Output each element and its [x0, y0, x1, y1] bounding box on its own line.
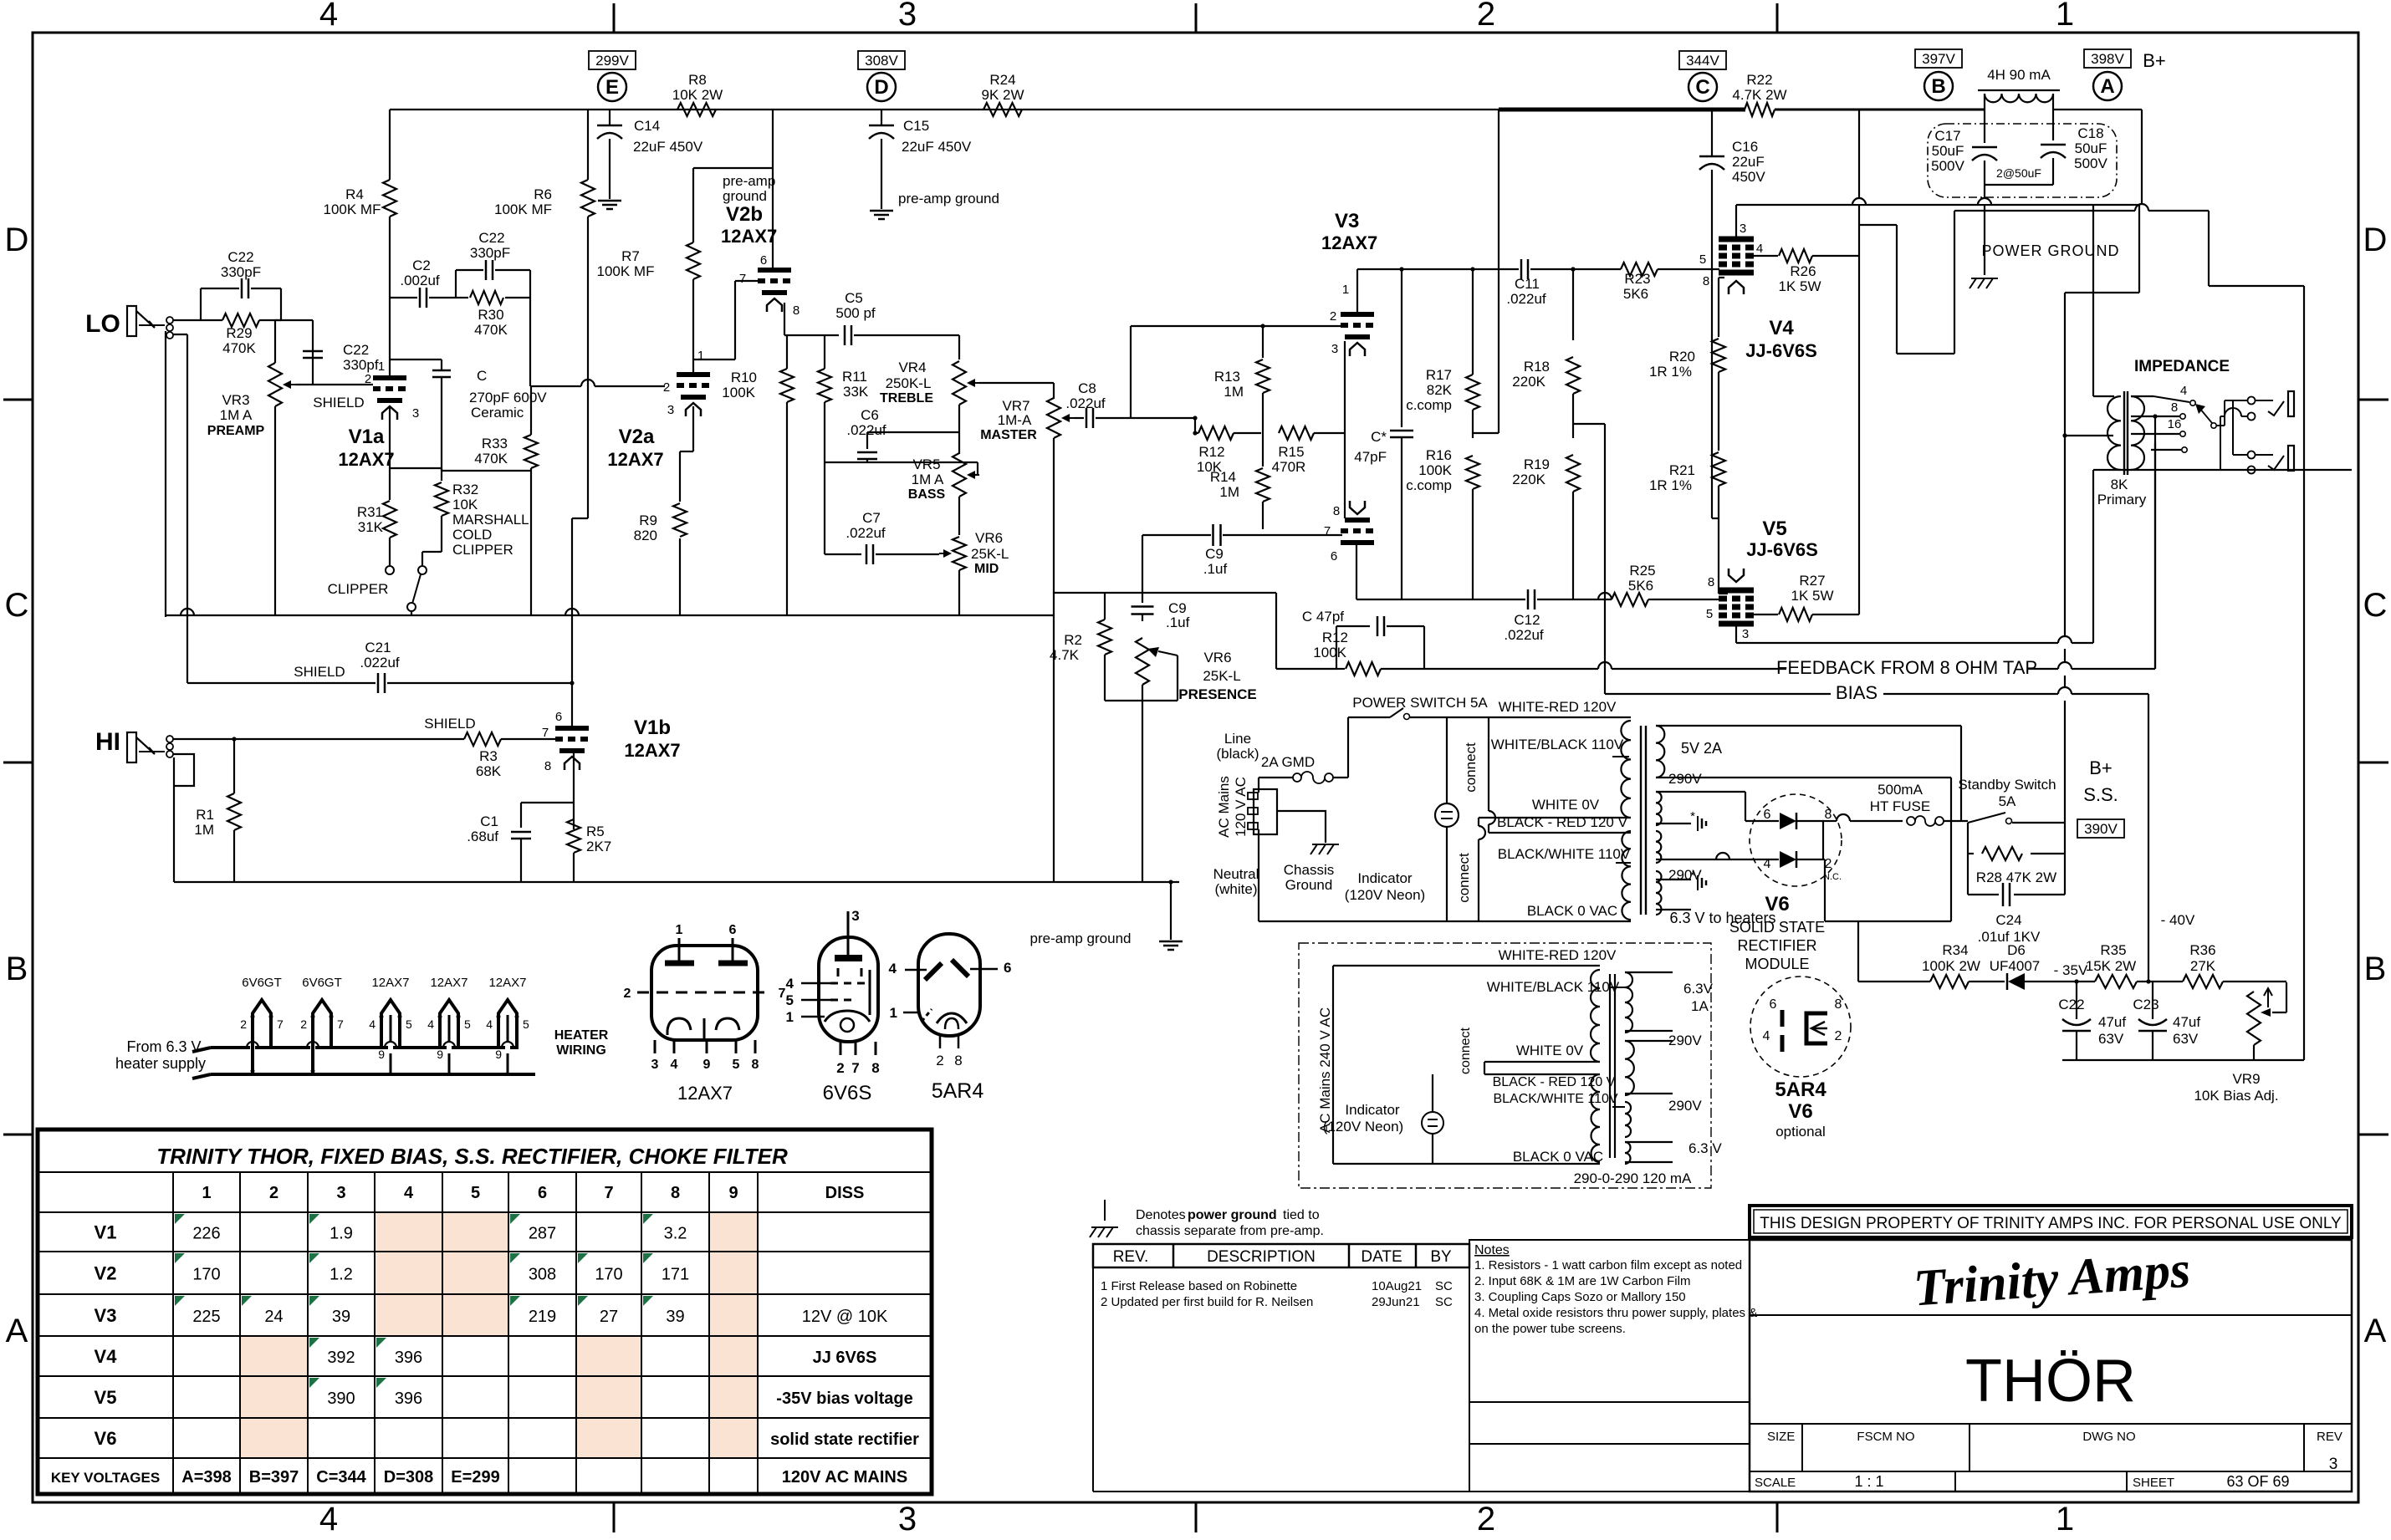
svg-text:1.2: 1.2 [330, 1266, 353, 1284]
svg-text:POWER SWITCH 5A: POWER SWITCH 5A [1352, 695, 1488, 711]
svg-text:V1a: V1a [349, 426, 385, 448]
svg-text:VR5: VR5 [912, 456, 940, 472]
svg-text:1: 1 [202, 1184, 211, 1202]
svg-text:C23: C23 [2133, 997, 2159, 1012]
svg-text:2: 2 [240, 1017, 247, 1031]
svg-text:C21: C21 [365, 640, 391, 655]
svg-text:PREAMP: PREAMP [207, 424, 265, 438]
svg-text:A=398: A=398 [181, 1468, 232, 1486]
svg-text:171: 171 [662, 1266, 689, 1284]
svg-text:R23: R23 [1624, 271, 1650, 287]
svg-text:c.comp: c.comp [1406, 397, 1452, 413]
svg-text:V6: V6 [1788, 1100, 1812, 1123]
svg-text:Indicator: Indicator [1357, 870, 1413, 886]
svg-text:R3: R3 [479, 748, 498, 764]
svg-text:S.S.: S.S. [2083, 784, 2118, 805]
svg-text:FSCM NO: FSCM NO [1857, 1430, 1914, 1444]
svg-text:Denotes: Denotes [1136, 1208, 1186, 1222]
svg-text:solid state rectifier: solid state rectifier [770, 1430, 919, 1449]
svg-text:1K 5W: 1K 5W [1778, 278, 1821, 294]
svg-text:N.C.: N.C. [1823, 872, 1842, 882]
svg-text:4: 4 [2180, 384, 2187, 398]
svg-text:3.2: 3.2 [664, 1225, 687, 1243]
svg-text:*: * [1690, 869, 1695, 883]
svg-text:*: * [1690, 809, 1695, 824]
svg-text:C11: C11 [1515, 276, 1540, 292]
svg-text:6: 6 [760, 253, 767, 268]
svg-text:8: 8 [752, 1058, 759, 1072]
svg-text:7: 7 [851, 1060, 859, 1076]
svg-text:4. Metal oxide resistors thru: 4. Metal oxide resistors thru power supp… [1474, 1306, 1757, 1320]
svg-text:470K: 470K [222, 340, 256, 356]
svg-text:5: 5 [523, 1017, 529, 1031]
svg-text:C12: C12 [1514, 612, 1540, 628]
svg-text:MID: MID [974, 562, 999, 576]
svg-text:1: 1 [1342, 283, 1349, 297]
svg-text:1M: 1M [1224, 384, 1244, 400]
svg-text:C17: C17 [1934, 128, 1960, 144]
svg-text:4: 4 [369, 1017, 376, 1031]
svg-text:1: 1 [697, 349, 704, 363]
svg-text:50uF: 50uF [1932, 143, 1964, 159]
svg-text:12AX7: 12AX7 [338, 449, 394, 470]
svg-text:2: 2 [624, 987, 631, 1001]
svg-text:R19: R19 [1524, 456, 1550, 472]
svg-text:C1: C1 [480, 813, 498, 829]
svg-text:4: 4 [404, 1184, 414, 1202]
svg-text:63 OF 69: 63 OF 69 [2226, 1473, 2289, 1490]
svg-text:B+: B+ [2143, 50, 2166, 71]
svg-text:V5: V5 [1762, 518, 1786, 540]
svg-text:Ceramic: Ceramic [471, 405, 524, 421]
svg-text:THÖR: THÖR [1965, 1348, 2136, 1415]
svg-text:V4: V4 [95, 1346, 118, 1367]
svg-text:DESCRIPTION: DESCRIPTION [1207, 1248, 1316, 1266]
svg-text:SHIELD: SHIELD [424, 716, 475, 732]
svg-text:12AX7: 12AX7 [721, 226, 777, 247]
svg-text:TRINITY THOR, FIXED BIAS, S.S: TRINITY THOR, FIXED BIAS, S.S. RECTIFIER… [156, 1144, 788, 1169]
svg-text:RECTIFIER: RECTIFIER [1737, 937, 1816, 954]
svg-text:330pF: 330pF [221, 264, 261, 280]
svg-text:6V6GT: 6V6GT [242, 976, 282, 990]
svg-text:AC Mains 240 V AC: AC Mains 240 V AC [1317, 1007, 1333, 1133]
svg-text:- 40V: - 40V [2161, 912, 2195, 928]
svg-text:C: C [2363, 587, 2388, 624]
svg-text:6: 6 [729, 923, 737, 937]
svg-text:3: 3 [412, 406, 419, 421]
svg-text:C14: C14 [634, 118, 660, 134]
svg-text:.1uf: .1uf [1203, 561, 1228, 577]
svg-text:.022uf: .022uf [1506, 291, 1546, 307]
svg-text:3: 3 [1742, 627, 1749, 641]
svg-text:4: 4 [319, 1501, 338, 1536]
svg-text:R16: R16 [1426, 447, 1452, 463]
svg-text:5: 5 [406, 1017, 412, 1031]
svg-text:C18: C18 [2077, 125, 2103, 141]
svg-text:220K: 220K [1512, 374, 1545, 390]
svg-text:470R: 470R [1272, 459, 1306, 475]
svg-text:500 pf: 500 pf [835, 305, 876, 321]
svg-text:39: 39 [666, 1308, 684, 1326]
svg-text:THIS DESIGN PROPERTY OF TRINIT: THIS DESIGN PROPERTY OF TRINITY AMPS INC… [1760, 1215, 2342, 1232]
svg-text:1M A: 1M A [220, 407, 253, 423]
svg-text:BLACK/WHITE 110V: BLACK/WHITE 110V [1498, 846, 1631, 862]
svg-text:50uF: 50uF [2075, 140, 2107, 156]
svg-text:24: 24 [264, 1308, 283, 1326]
svg-text:WHITE/BLACK 110V: WHITE/BLACK 110V [1487, 979, 1620, 995]
svg-text:V5: V5 [95, 1387, 117, 1408]
svg-text:R34: R34 [1942, 942, 1968, 958]
svg-text:12AX7: 12AX7 [624, 740, 680, 761]
svg-text:E: E [605, 76, 619, 99]
svg-text:SHEET: SHEET [2133, 1476, 2174, 1490]
svg-text:connect: connect [1456, 853, 1472, 903]
svg-text:1A: 1A [1691, 998, 1709, 1014]
svg-text:Ground: Ground [1285, 877, 1333, 893]
svg-text:4: 4 [319, 0, 338, 33]
svg-text:MODULE: MODULE [1745, 956, 1809, 972]
svg-text:C: C [1695, 76, 1709, 99]
svg-text:170: 170 [595, 1266, 622, 1284]
svg-text:398V: 398V [2091, 51, 2124, 67]
svg-text:1: 1 [2056, 0, 2074, 33]
svg-text:225: 225 [192, 1308, 220, 1326]
svg-text:9K 2W: 9K 2W [981, 87, 1024, 103]
svg-text:5: 5 [471, 1184, 480, 1202]
svg-text:120 V AC: 120 V AC [1233, 777, 1249, 837]
svg-text:HI: HI [95, 728, 120, 756]
svg-text:D: D [874, 76, 888, 99]
svg-text:15K 2W: 15K 2W [2086, 958, 2136, 974]
svg-text:12AX7: 12AX7 [607, 449, 663, 470]
svg-text:100K 2W: 100K 2W [1922, 958, 1980, 974]
svg-text:Chassis: Chassis [1284, 862, 1334, 878]
svg-text:BLACK - RED 120 V: BLACK - RED 120 V [1493, 1075, 1616, 1089]
svg-text:330pF: 330pF [470, 245, 510, 261]
svg-text:WHITE 0V: WHITE 0V [1532, 797, 1600, 813]
svg-text:From 6.3 V: From 6.3 V [126, 1038, 201, 1055]
svg-text:500V: 500V [2074, 156, 2107, 171]
svg-text:SHIELD: SHIELD [313, 395, 364, 410]
svg-text:5K6: 5K6 [1623, 286, 1648, 302]
svg-text:5: 5 [733, 1058, 740, 1072]
svg-text:BLACK 0 VAC: BLACK 0 VAC [1513, 1149, 1603, 1165]
svg-text:UF4007: UF4007 [1990, 958, 2040, 974]
svg-text:120V AC MAINS: 120V AC MAINS [782, 1468, 907, 1486]
svg-text:470K: 470K [474, 322, 508, 338]
svg-text:V1: V1 [95, 1222, 117, 1243]
svg-text:5: 5 [1699, 252, 1706, 267]
svg-text:3: 3 [1331, 342, 1338, 356]
svg-text:1M: 1M [1219, 484, 1239, 500]
svg-text:330pf: 330pf [343, 357, 379, 373]
svg-text:V3: V3 [95, 1305, 117, 1326]
svg-text:BLACK 0 VAC: BLACK 0 VAC [1527, 903, 1617, 919]
svg-text:31K: 31K [358, 519, 384, 535]
svg-text:C*: C* [1371, 429, 1387, 445]
svg-text:R13: R13 [1214, 369, 1240, 385]
svg-text:MASTER: MASTER [980, 428, 1037, 442]
svg-text:C: C [477, 368, 487, 384]
svg-text:(120V Neon): (120V Neon) [1323, 1119, 1403, 1135]
svg-text:5V 2A: 5V 2A [1681, 740, 1722, 757]
svg-text:MARSHALL: MARSHALL [452, 512, 529, 528]
svg-text:WIRING: WIRING [556, 1043, 606, 1058]
svg-text:9: 9 [728, 1184, 738, 1202]
svg-text:7: 7 [1324, 524, 1331, 538]
svg-text:1: 1 [2056, 1501, 2074, 1536]
svg-text:WHITE-RED 120V: WHITE-RED 120V [1499, 699, 1617, 715]
svg-text:47uf: 47uf [2098, 1014, 2126, 1030]
svg-text:A: A [6, 1313, 28, 1349]
svg-text:7: 7 [739, 272, 746, 286]
svg-text:6: 6 [1331, 549, 1337, 563]
svg-text:47uf: 47uf [2173, 1014, 2200, 1030]
svg-text:10Aug21: 10Aug21 [1372, 1279, 1422, 1293]
svg-text:10K 2W: 10K 2W [672, 87, 723, 103]
svg-text:R30: R30 [478, 307, 503, 323]
svg-text:R27: R27 [1799, 573, 1825, 589]
svg-text:8: 8 [954, 1053, 962, 1068]
svg-text:2: 2 [836, 1060, 844, 1076]
svg-text:299V: 299V [595, 53, 629, 69]
svg-text:6: 6 [538, 1184, 547, 1202]
svg-text:SIZE: SIZE [1767, 1430, 1795, 1444]
svg-text:5: 5 [786, 992, 794, 1008]
svg-text:63V: 63V [2173, 1031, 2199, 1047]
svg-text:3: 3 [336, 1184, 345, 1202]
svg-text:R24: R24 [989, 72, 1015, 88]
svg-text:270pF 600V: 270pF 600V [469, 390, 547, 405]
svg-text:4: 4 [786, 976, 794, 992]
svg-text:8: 8 [1333, 504, 1340, 518]
svg-text:9: 9 [703, 1058, 711, 1072]
svg-text:12AX7: 12AX7 [488, 976, 526, 990]
svg-text:27: 27 [600, 1308, 618, 1326]
svg-text:R6: R6 [534, 186, 552, 202]
svg-text:397V: 397V [1922, 51, 1955, 67]
svg-text:2 Updated per first build fo: 2 Updated per first build for R. Neilsen [1101, 1295, 1313, 1309]
svg-text:R5: R5 [586, 824, 605, 839]
svg-text:HT FUSE: HT FUSE [1870, 798, 1930, 814]
svg-text:R11: R11 [842, 369, 867, 385]
svg-text:ground: ground [723, 188, 767, 204]
svg-text:JJ-6V6S: JJ-6V6S [1746, 539, 1818, 560]
svg-text:B+: B+ [2089, 757, 2113, 778]
svg-text:308V: 308V [865, 53, 898, 69]
svg-text:C2: C2 [412, 258, 431, 273]
svg-text:2K7: 2K7 [586, 839, 611, 854]
svg-text:2: 2 [1477, 1501, 1495, 1536]
svg-text:Standby Switch: Standby Switch [1958, 777, 2056, 793]
svg-text:R20: R20 [1669, 349, 1695, 365]
svg-text:7: 7 [277, 1017, 284, 1031]
svg-text:VR3: VR3 [222, 392, 249, 408]
svg-text:5: 5 [1706, 607, 1713, 621]
svg-text:100K MF: 100K MF [597, 263, 655, 279]
svg-text:6: 6 [555, 710, 562, 724]
svg-text:1 First Release based on Robi: 1 First Release based on Robinette [1101, 1279, 1297, 1293]
svg-text:R18: R18 [1524, 359, 1550, 375]
svg-text:500V: 500V [1931, 158, 1964, 174]
svg-text:R35: R35 [2100, 942, 2126, 958]
svg-text:10K: 10K [452, 497, 478, 512]
svg-text:.1uf: .1uf [1166, 614, 1190, 630]
svg-text:2: 2 [936, 1053, 943, 1068]
svg-text:R21: R21 [1669, 462, 1695, 478]
svg-text:C15: C15 [903, 118, 929, 134]
svg-text:7: 7 [604, 1184, 613, 1202]
svg-text:R22: R22 [1746, 72, 1772, 88]
svg-text:1K 5W: 1K 5W [1791, 588, 1833, 604]
svg-text:2: 2 [365, 372, 371, 386]
svg-text:C22: C22 [2058, 997, 2084, 1012]
svg-text:Notes: Notes [1474, 1243, 1510, 1257]
svg-text:82K: 82K [1427, 382, 1453, 398]
svg-text:-35V bias voltage: -35V bias voltage [776, 1390, 912, 1408]
svg-text:C9: C9 [1205, 546, 1224, 562]
svg-text:R15: R15 [1278, 444, 1304, 460]
svg-text:1: 1 [676, 923, 683, 937]
svg-text:C5: C5 [845, 290, 863, 306]
svg-text:BASS: BASS [908, 487, 946, 502]
svg-text:SHIELD: SHIELD [294, 664, 345, 680]
svg-text:3. Coupling Caps Sozo or Mallo: 3. Coupling Caps Sozo or Mallory 150 [1474, 1290, 1686, 1304]
svg-text:820: 820 [634, 528, 657, 543]
svg-text:1.9: 1.9 [330, 1225, 353, 1243]
svg-text:8: 8 [671, 1184, 680, 1202]
svg-text:SCALE: SCALE [1755, 1476, 1796, 1490]
svg-text:AC Mains: AC Mains [1216, 776, 1232, 838]
svg-text:392: 392 [327, 1349, 355, 1367]
svg-text:4: 4 [1763, 1029, 1770, 1043]
svg-text:6.3 V: 6.3 V [1689, 1140, 1722, 1156]
svg-text:4: 4 [427, 1017, 434, 1031]
svg-text:Primary: Primary [2097, 492, 2147, 507]
svg-text:6: 6 [1004, 960, 1011, 976]
svg-text:VR6: VR6 [1203, 650, 1231, 665]
svg-text:KEY VOLTAGES: KEY VOLTAGES [51, 1470, 160, 1486]
svg-text:8: 8 [1835, 997, 1842, 1012]
svg-text:290V: 290V [1668, 1033, 1702, 1048]
svg-text:22uF 450V: 22uF 450V [902, 139, 972, 155]
svg-text:(black): (black) [1216, 746, 1259, 762]
svg-text:R7: R7 [621, 248, 640, 264]
svg-text:390: 390 [327, 1390, 355, 1408]
svg-text:10K Bias Adj.: 10K Bias Adj. [2194, 1088, 2278, 1104]
svg-text:29Jun21: 29Jun21 [1372, 1295, 1420, 1309]
svg-text:5AR4: 5AR4 [1775, 1079, 1826, 1101]
svg-text:VR6: VR6 [975, 530, 1003, 546]
svg-text:8: 8 [1708, 575, 1714, 589]
svg-text:47pF: 47pF [1354, 449, 1387, 465]
svg-text:V1b: V1b [634, 716, 671, 739]
svg-text:8: 8 [1825, 808, 1832, 822]
svg-text:R28 47K 2W: R28 47K 2W [1976, 869, 2056, 885]
svg-text:R17: R17 [1426, 367, 1452, 383]
svg-text:3: 3 [898, 1501, 917, 1536]
svg-text:.002uf: .002uf [400, 273, 440, 288]
svg-text:Neutral: Neutral [1213, 866, 1259, 882]
svg-text:10K: 10K [1197, 459, 1223, 475]
svg-text:6V6S: 6V6S [823, 1082, 872, 1104]
svg-text:5: 5 [464, 1017, 471, 1031]
svg-text:D6: D6 [2007, 942, 2026, 958]
svg-text:WHITE-RED 120V: WHITE-RED 120V [1499, 947, 1617, 963]
svg-text:BLACK - RED 120 V: BLACK - RED 120 V [1497, 814, 1628, 830]
svg-text:REV.: REV. [1113, 1248, 1149, 1266]
svg-text:B: B [6, 951, 28, 987]
svg-text:9: 9 [378, 1048, 385, 1061]
svg-text:344V: 344V [1686, 53, 1719, 69]
svg-text:8K: 8K [2111, 477, 2128, 492]
svg-text:2@50uF: 2@50uF [1996, 166, 2041, 180]
svg-text:R26: R26 [1790, 263, 1816, 279]
svg-text:1: 1 [890, 1005, 897, 1021]
svg-text:290V: 290V [1668, 771, 1702, 787]
svg-text:pre-amp ground: pre-amp ground [898, 191, 999, 207]
svg-text:308: 308 [529, 1266, 556, 1284]
svg-text:2. Input 68K & 1M are 1W Carbo: 2. Input 68K & 1M are 1W Carbon Film [1474, 1274, 1690, 1288]
svg-text:500mA: 500mA [1878, 782, 1924, 798]
svg-text:1. Resistors - 1 watt carbon f: 1. Resistors - 1 watt carbon film except… [1474, 1258, 1742, 1272]
svg-text:12AX7: 12AX7 [1321, 232, 1377, 253]
svg-text:c.comp: c.comp [1406, 477, 1452, 493]
svg-text:100K: 100K [1418, 462, 1452, 478]
svg-text:1M: 1M [194, 822, 214, 838]
svg-text:R1: R1 [196, 807, 214, 823]
svg-text:SC: SC [1435, 1295, 1453, 1309]
svg-text:V2a: V2a [619, 426, 655, 448]
svg-text:8: 8 [2171, 400, 2178, 415]
svg-text:BY: BY [1430, 1248, 1452, 1266]
svg-text:2A GMD: 2A GMD [1261, 754, 1315, 770]
svg-text:22uF: 22uF [1732, 154, 1765, 170]
svg-text:12AX7: 12AX7 [371, 976, 409, 990]
svg-text:63V: 63V [2098, 1031, 2124, 1047]
svg-text:1: 1 [378, 360, 385, 374]
svg-text:390V: 390V [2084, 821, 2118, 837]
svg-text:8: 8 [793, 303, 800, 318]
svg-text:D: D [5, 222, 29, 258]
svg-text:FEEDBACK FROM 8 OHM TAP: FEEDBACK FROM 8 OHM TAP [1776, 657, 2037, 678]
svg-text:D=308: D=308 [384, 1468, 434, 1486]
svg-text:chassis separate from pre-amp.: chassis separate from pre-amp. [1136, 1224, 1324, 1238]
svg-text:8: 8 [1703, 274, 1709, 288]
svg-text:100K MF: 100K MF [494, 201, 552, 217]
svg-text:VR4: VR4 [898, 360, 926, 375]
svg-text:220K: 220K [1512, 472, 1545, 487]
svg-text:4H 90 mA: 4H 90 mA [1987, 67, 2051, 83]
svg-text:7: 7 [337, 1017, 344, 1031]
svg-text:pre-amp: pre-amp [723, 173, 775, 189]
svg-text:optional: optional [1775, 1124, 1826, 1140]
svg-text:DATE: DATE [1361, 1248, 1402, 1266]
svg-text:1R 1%: 1R 1% [1649, 477, 1692, 493]
svg-text:CLIPPER: CLIPPER [328, 581, 389, 597]
svg-text:33K: 33K [843, 384, 869, 400]
svg-text:R4: R4 [345, 186, 364, 202]
svg-text:219: 219 [529, 1308, 556, 1326]
svg-text:WHITE/BLACK 110V: WHITE/BLACK 110V [1491, 737, 1624, 752]
svg-text:12AX7: 12AX7 [677, 1083, 733, 1104]
svg-text:C16: C16 [1732, 139, 1758, 155]
svg-text:6.3V: 6.3V [1683, 981, 1714, 997]
svg-text:SOLID STATE: SOLID STATE [1729, 919, 1825, 936]
svg-text:HEATER: HEATER [554, 1028, 609, 1043]
svg-text:.022uf: .022uf [846, 422, 886, 438]
svg-text:SC: SC [1435, 1279, 1453, 1293]
